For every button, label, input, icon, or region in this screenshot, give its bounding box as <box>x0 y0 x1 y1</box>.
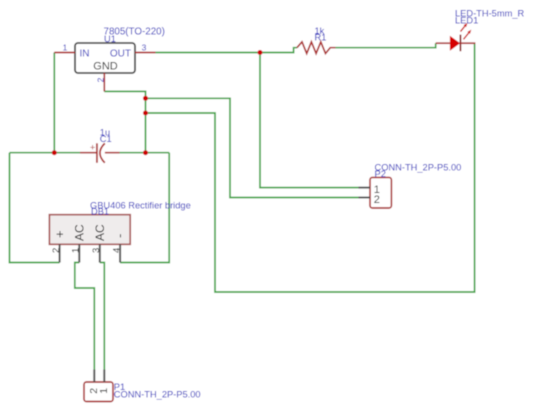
wire: row C long return to LED cathode <box>146 44 475 292</box>
svg-text:2: 2 <box>374 194 380 206</box>
svg-text:R1: R1 <box>315 33 327 43</box>
pin 3 of U1 <box>135 52 156 54</box>
pin 2 of U1 <box>103 73 105 91</box>
wire: U1 pin3 top rail to resistor <box>156 48 298 53</box>
wire: DB1 pin1 to P1 left pin <box>75 263 95 370</box>
svg-text:+: + <box>90 143 96 154</box>
pin 1 of DB1 <box>78 244 80 262</box>
LED LED1 <box>436 8 525 51</box>
pin 3 of DB1 <box>99 244 101 262</box>
pin 2 of P2 <box>359 197 371 199</box>
svg-text:-: - <box>112 234 127 238</box>
voltage regulator U1 (7805 TO-220) <box>75 27 165 74</box>
svg-text:2: 2 <box>51 248 62 253</box>
svg-text:AC: AC <box>72 224 86 241</box>
node: junction row C <box>143 111 148 116</box>
wire: resistor to LED anode <box>336 43 436 48</box>
node: junction on top rail <box>258 50 263 55</box>
pin 4 of DB1 <box>119 244 121 262</box>
svg-text:1: 1 <box>63 42 68 52</box>
svg-text:3: 3 <box>142 42 147 52</box>
svg-text:AC: AC <box>93 224 107 241</box>
svg-text:1: 1 <box>98 388 110 394</box>
svg-text:LED1: LED1 <box>455 16 478 26</box>
svg-text:+: + <box>52 230 67 238</box>
wire: U1 pin1 to left vertical <box>53 53 55 153</box>
wire: right loop to DB1 pin4 <box>120 153 169 263</box>
wire: top junction down to P2 pin1 <box>260 53 359 188</box>
svg-text:2: 2 <box>96 77 106 82</box>
svg-text:CONN-TH_2P-P5.00: CONN-TH_2P-P5.00 <box>114 389 201 399</box>
svg-text:C1: C1 <box>100 134 112 144</box>
pin 1 of U1 <box>54 52 75 54</box>
svg-text:1: 1 <box>71 248 82 253</box>
pin 2 of P1 <box>93 370 95 383</box>
rectifier bridge DB1 <box>49 200 190 244</box>
node: junction row B <box>143 96 148 101</box>
node: junction left of capacitor <box>52 150 57 155</box>
connector P1 <box>84 382 201 402</box>
pin 2 of DB1 <box>59 244 61 262</box>
pin 1 of P1 <box>103 370 105 383</box>
svg-text:CONN-TH_2P-P5.00: CONN-TH_2P-P5.00 <box>375 162 462 172</box>
wire: left loop down <box>10 153 60 263</box>
wire: U1 pin2 GND row <box>104 91 145 152</box>
svg-text:IN: IN <box>80 49 90 60</box>
svg-text:3: 3 <box>91 248 102 253</box>
resistor R1 <box>297 26 336 54</box>
wire: row B to P2 pin2 <box>146 98 359 197</box>
capacitor C1 <box>80 127 120 163</box>
pin 1 of P2 <box>359 187 371 189</box>
svg-text:U1: U1 <box>104 34 116 44</box>
wire: cap right to DB1 pin4 vertical start <box>120 152 170 154</box>
svg-text:DB1: DB1 <box>91 207 109 217</box>
node: junction right of capacitor <box>143 150 148 155</box>
svg-text:4: 4 <box>111 248 122 253</box>
svg-text:GND: GND <box>93 61 118 73</box>
svg-text:P2: P2 <box>375 169 386 179</box>
svg-text:OUT: OUT <box>110 49 131 60</box>
wire: left cap row horizontal <box>10 152 81 154</box>
connector P2 <box>370 162 461 208</box>
wire: DB1 pin3 to P1 right pin <box>100 263 105 370</box>
